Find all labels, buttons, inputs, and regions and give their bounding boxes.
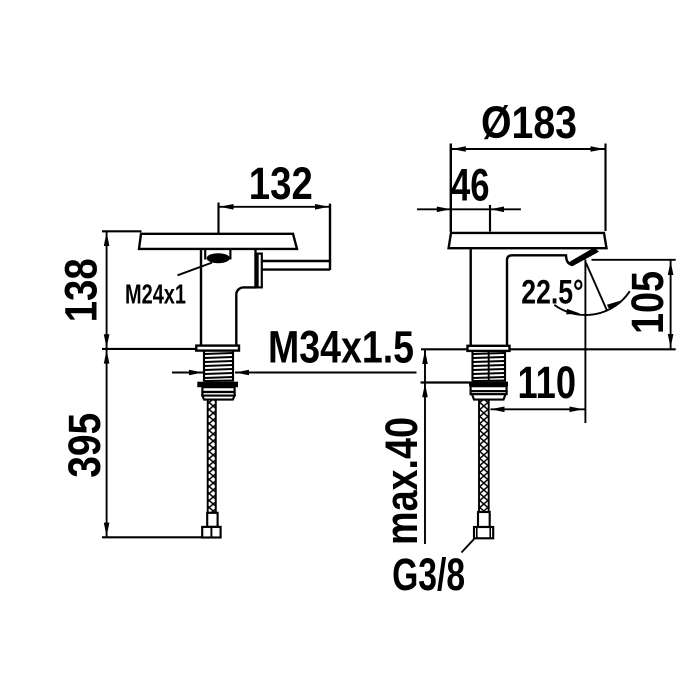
svg-text:138: 138 [56, 258, 107, 322]
svg-text:M24x1: M24x1 [125, 278, 186, 309]
svg-text:max.40: max.40 [376, 417, 427, 545]
svg-text:105: 105 [622, 271, 673, 334]
svg-text:110: 110 [518, 357, 577, 408]
svg-text:395: 395 [59, 413, 110, 478]
svg-text:22.5°: 22.5° [521, 274, 583, 312]
svg-text:M34x1.5: M34x1.5 [268, 322, 414, 373]
svg-text:G3/8: G3/8 [392, 549, 465, 600]
svg-text:Ø183: Ø183 [481, 97, 577, 148]
svg-text:132: 132 [249, 158, 313, 209]
svg-text:46: 46 [451, 159, 490, 210]
